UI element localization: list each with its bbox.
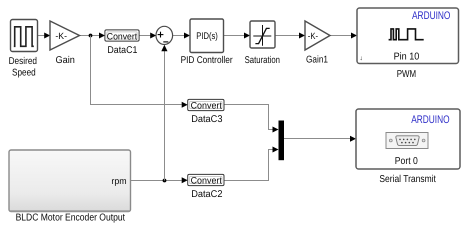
svg-text:Gain1: Gain1 [306, 55, 328, 66]
PID controller block [181, 19, 234, 66]
wire: Mux to Serial Transmit [284, 136, 356, 142]
wire: Desired Speed to Gain [38, 33, 51, 39]
svg-text:-K-: -K- [308, 31, 318, 41]
wire: Gain1 to PWM block [330, 33, 357, 39]
wire: Gain to DataC1 [80, 33, 106, 39]
svg-text:ARDUINO: ARDUINO [411, 114, 450, 126]
svg-text:Port 0: Port 0 [395, 156, 418, 167]
converter block: DataC1 [105, 30, 139, 56]
wire: PID Controller to Saturation [224, 33, 251, 39]
sum block [156, 26, 173, 44]
svg-text:Convert: Convert [107, 31, 138, 41]
svg-text:ARDUINO: ARDUINO [412, 10, 451, 22]
svg-text:-K-: -K- [55, 31, 67, 41]
svg-text:PWM: PWM [397, 69, 416, 80]
svg-text:DataC1: DataC1 [107, 45, 137, 56]
wire: Sum to PID Controller [173, 33, 190, 39]
gain block: Gain [50, 21, 80, 66]
wire: DataC1 to Sum [139, 33, 156, 39]
gain block: Gain1 [305, 21, 330, 66]
wire: branch down from Gain junction to DataC3 [91, 36, 188, 108]
svg-text:DataC3: DataC3 [191, 114, 223, 125]
svg-text:Convert: Convert [191, 101, 223, 111]
svg-text:PID Controller: PID Controller [181, 55, 234, 66]
wire: feedback from rpm junction up to Sum [161, 45, 167, 181]
wire: Saturation to Gain1 [275, 33, 305, 39]
converter block: DataC3 [188, 99, 224, 124]
svg-text:rpm: rpm [111, 176, 126, 186]
wire: BLDC rpm output to DataC2 [131, 177, 188, 183]
svg-text:Gain: Gain [56, 55, 75, 66]
svg-text:Speed: Speed [12, 68, 36, 79]
subsystem block: BLDC Motor Encoder Output [9, 150, 131, 224]
node junction on rpm wire [163, 179, 167, 183]
pulse generator block: Desired Speed [9, 20, 38, 79]
svg-text:Serial Transmit: Serial Transmit [379, 174, 436, 185]
svg-text:↓: ↓ [360, 55, 363, 62]
wire: DataC3 to Mux top input [224, 105, 279, 133]
svg-text:BLDC Motor Encoder Output: BLDC Motor Encoder Output [16, 213, 126, 224]
arduino PWM block: Pin 10 [357, 8, 459, 80]
svg-text:Pin 10: Pin 10 [394, 52, 420, 63]
svg-text:PID(s): PID(s) [196, 31, 218, 42]
wire: DataC2 to Mux bottom input [224, 147, 279, 181]
svg-text:Desired: Desired [9, 56, 37, 67]
svg-text:Saturation: Saturation [245, 55, 280, 66]
svg-text:DataC2: DataC2 [191, 189, 222, 200]
converter block: DataC2 [188, 174, 224, 199]
node junction after Gain [89, 34, 93, 38]
saturation block [245, 21, 280, 66]
arduino serial block: Port 0 [356, 109, 460, 185]
svg-text:Convert: Convert [191, 176, 223, 186]
mux block [279, 121, 285, 161]
